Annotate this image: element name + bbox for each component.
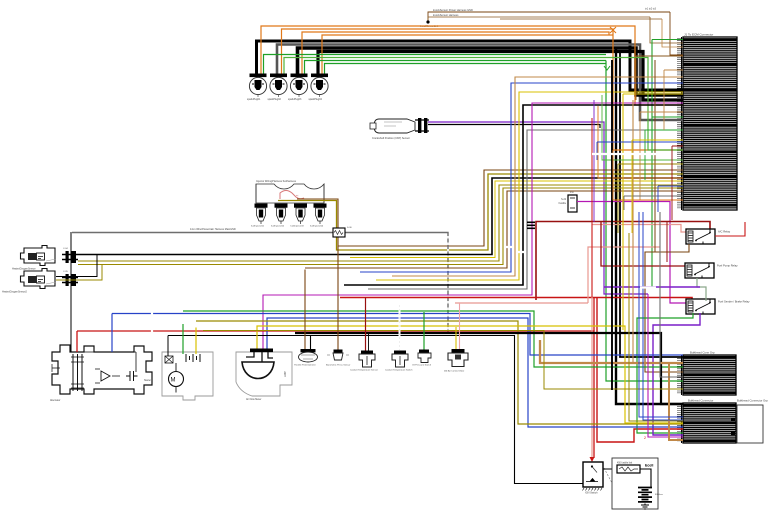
connector inline 3bar xyxy=(527,222,535,224)
svg-text:Starter: Starter xyxy=(144,379,151,382)
svg-text:M: M xyxy=(171,378,176,384)
spark plug 3 xyxy=(290,74,307,98)
wire brown relay1 xyxy=(645,244,689,372)
wire yellow stair xyxy=(350,181,683,258)
wire yellow IAC xyxy=(455,327,457,349)
wire darkred coolant sensor xyxy=(365,298,367,351)
wire darkred stub n xyxy=(672,146,683,220)
svg-text:sparkPlug04: sparkPlug04 xyxy=(309,98,323,101)
svg-text:Bulkhead Conn Grp: Bulkhead Conn Grp xyxy=(690,351,715,355)
oxygen sensor connector 1 xyxy=(62,251,78,263)
wire purple crank signal xyxy=(428,122,648,294)
wire salmon relay1 stub xyxy=(663,225,686,233)
wire yellow starter stub xyxy=(195,328,197,355)
wire pink IAC xyxy=(459,303,461,349)
svg-text:fuelInjector01: fuelInjector01 xyxy=(251,225,265,228)
svg-text:S-22: S-22 xyxy=(561,199,567,201)
wire gray stub h xyxy=(624,196,683,210)
svg-text:fuelInjector03: fuelInjector03 xyxy=(291,225,305,228)
wire olive long left xyxy=(203,331,683,390)
barometric pressure sensor xyxy=(327,350,349,361)
starter motor assembly xyxy=(162,352,213,400)
wire green coil 4 xyxy=(325,64,607,78)
wire red ign 2 xyxy=(593,298,595,332)
svg-text:Fuel Pump Relay: Fuel Pump Relay xyxy=(717,264,738,268)
injector 1 xyxy=(255,204,268,225)
node orange splice X xyxy=(610,27,616,33)
wire olive stub f xyxy=(618,164,683,233)
wire black starter band xyxy=(168,336,583,484)
wire red alternator feed xyxy=(76,331,78,352)
oxygen sensor connector 2 xyxy=(62,274,78,286)
wire brown top right xyxy=(670,12,683,55)
junction box resistor S-30 xyxy=(333,228,345,237)
svg-text:HeatedOxygenSensor2: HeatedOxygenSensor2 xyxy=(2,291,28,294)
wire blue bulkhead a xyxy=(639,212,683,417)
wire brown stub g xyxy=(636,56,683,100)
ignition switch xyxy=(583,462,604,491)
wire blue bulkhead b xyxy=(643,212,683,420)
wire orange trunk down xyxy=(613,35,683,150)
svg-text:Crankshaft Position (CKP) Sens: Crankshaft Position (CKP) Sensor xyxy=(372,137,410,140)
wire lightgreen stub b xyxy=(602,95,683,160)
svg-text:sparkPlug01: sparkPlug01 xyxy=(247,98,261,101)
wire yellow nest2 xyxy=(376,92,683,280)
wire purple stub l xyxy=(593,100,595,222)
svg-text:Coolant Temperature Sensor: Coolant Temperature Sensor xyxy=(350,369,378,372)
wire white crossing dashes on harness vertical xyxy=(447,236,449,332)
svg-text:Fusible: Fusible xyxy=(559,203,567,205)
svg-text:14-in Wire/Powertrain Harness: 14-in Wire/Powertrain Harness MainGND xyxy=(190,228,236,231)
ground battery xyxy=(641,504,649,510)
svg-text:sparkPlug02: sparkPlug02 xyxy=(268,98,282,101)
wire orange stub i xyxy=(613,150,683,200)
svg-text:fuelInjector04: fuelInjector04 xyxy=(310,225,324,228)
svg-text:Fuel Sender / Brake Relay: Fuel Sender / Brake Relay xyxy=(718,300,750,304)
svg-text:B1Mass: B1Mass xyxy=(655,494,664,496)
svg-text:fuelInjector02: fuelInjector02 xyxy=(271,225,285,228)
svg-text:A/C Relay: A/C Relay xyxy=(718,230,731,234)
wire olive O2 2 xyxy=(78,188,683,265)
wire brown throttle pot xyxy=(304,270,306,350)
relay K2 fuel pump xyxy=(685,263,714,278)
wire O2 sensor2 black stub xyxy=(56,255,97,277)
svg-text:AMP: AMP xyxy=(283,371,287,377)
wire green ECM top pin xyxy=(652,40,683,288)
injector wiring harness manifold xyxy=(256,184,324,203)
fuse S-22 fusible link xyxy=(568,195,577,212)
injector 2 xyxy=(275,204,288,225)
wire orange coil 4 xyxy=(322,35,613,77)
mechanical link dashed xyxy=(604,468,612,483)
wire tan stub m xyxy=(664,70,683,130)
wire purple relay3 out xyxy=(653,313,700,435)
node knock sensor ground junction xyxy=(426,20,429,23)
wire red battery trunk xyxy=(340,298,692,302)
wire tan top right 2 xyxy=(662,19,683,47)
coolant temperature switch xyxy=(392,351,408,368)
svg-text:tx1 tx2 tx3: tx1 tx2 tx3 xyxy=(645,8,657,11)
spark plug 4 xyxy=(311,74,328,98)
wire battery positive xyxy=(640,469,651,487)
wire brown trunk x655 xyxy=(654,60,656,252)
battery box xyxy=(612,458,658,509)
wire green starter stub xyxy=(182,324,184,354)
svg-text:S-30: S-30 xyxy=(347,227,352,229)
wire black trunk pair xyxy=(611,60,613,390)
injector 3 xyxy=(294,204,307,225)
wire black ground bus xyxy=(295,333,683,404)
wire red relay1 out xyxy=(715,222,745,236)
oil pressure switch xyxy=(418,350,431,363)
svg-text:Bulkhead Connector: Bulkhead Connector xyxy=(688,399,713,403)
wire yellow stub k xyxy=(632,140,683,233)
wire salmon sensor line xyxy=(455,302,588,304)
wire olive O2 1 xyxy=(78,185,683,261)
connector J1 ECM xyxy=(677,37,737,210)
fusible link F1 xyxy=(617,465,640,473)
wire gray ecm drop xyxy=(660,212,683,377)
svg-text:Idle Air Control Valve: Idle Air Control Valve xyxy=(444,370,465,373)
wire black nest xyxy=(344,105,683,285)
bulkhead connector group outline box xyxy=(737,405,763,443)
wire tan bulkhead vertical xyxy=(669,363,683,440)
wire yellow air cleaner xyxy=(257,326,683,423)
wire green relay3 out xyxy=(637,313,693,433)
wire harness trunk gray 2 xyxy=(345,233,448,333)
svg-text:Coolant Temperature Switch: Coolant Temperature Switch xyxy=(385,369,413,372)
wire tan bulkhead thick xyxy=(540,340,683,363)
wire black O2 1 xyxy=(78,178,683,255)
svg-text:Air Flow Meter: Air Flow Meter xyxy=(246,398,262,401)
wire tan top right xyxy=(650,17,683,43)
svg-text:HeatedOxygenSensor: HeatedOxygenSensor xyxy=(12,268,36,271)
wire ignition bus 2 gray xyxy=(277,45,683,121)
wire blue air cleaner xyxy=(267,318,683,427)
wire magenta nest air cleaner xyxy=(263,103,683,349)
wire O2 sensor2 olive stub xyxy=(56,265,102,281)
wire blue alternator stub xyxy=(111,314,113,353)
wire red ign drop xyxy=(597,298,683,443)
wire tan stub c xyxy=(640,112,683,200)
svg-text:knockSensor Power Harness GND: knockSensor Power Harness GND xyxy=(433,8,473,12)
bulkhead lower pin squares xyxy=(731,418,735,421)
svg-text:Barometric Press Sensor: Barometric Press Sensor xyxy=(326,364,351,367)
wire yellow trunk right xyxy=(623,94,683,330)
wire purple relay2 out xyxy=(604,286,700,288)
spark plug 1 xyxy=(249,74,266,98)
svg-text:2: 2 xyxy=(644,436,646,440)
connector bulkhead lower xyxy=(677,403,736,443)
wire black alternator xyxy=(70,350,72,352)
injector 4 xyxy=(314,204,327,225)
spark plug 2 xyxy=(270,74,287,98)
svg-text:Throttle Potentiometer: Throttle Potentiometer xyxy=(294,364,316,367)
wire green coil 3 xyxy=(305,61,607,78)
wire black switch to battery xyxy=(603,468,618,470)
wire olive trunk right xyxy=(629,233,683,421)
svg-text:Ecell: Ecell xyxy=(645,464,653,468)
wire graygreen relay2 to relay3 xyxy=(697,278,706,301)
wire orange stub a xyxy=(598,106,683,178)
wire black vertical trunk B xyxy=(620,52,683,357)
coolant temperature sensor xyxy=(359,351,375,368)
wire green stub j xyxy=(645,130,683,180)
wire green coil 2 xyxy=(284,58,683,151)
svg-text:Alternator: Alternator xyxy=(50,399,61,402)
injector internal resistor wire (pink) xyxy=(280,191,304,200)
relay K1 A/C xyxy=(686,229,715,244)
wire gray nest xyxy=(368,130,683,289)
relay K3 fuel sender xyxy=(686,299,715,314)
wire blue alternator xyxy=(112,314,683,356)
svg-text:Oil Pressure Switch: Oil Pressure Switch xyxy=(412,364,432,367)
wire green oil pressure xyxy=(423,312,425,350)
wire red band left xyxy=(77,331,594,458)
node red arrow into switch xyxy=(590,457,595,462)
idle air control valve xyxy=(448,349,468,367)
svg-text:C-35: C-35 xyxy=(63,271,69,273)
wire olive starter xyxy=(196,321,683,424)
wire ignition bus 1 xyxy=(257,41,684,90)
wire tan nest xyxy=(392,77,683,276)
wire tan knock sensor 2 xyxy=(428,17,662,22)
wire orange coil 3 xyxy=(302,32,609,77)
wire darkred main feed xyxy=(536,222,710,301)
svg-text:C-34: C-34 xyxy=(63,248,69,250)
wire black throttle pot xyxy=(310,336,312,350)
throttle potentiometer sensor xyxy=(299,349,318,362)
wire blue stub o xyxy=(658,186,683,212)
battery B1 xyxy=(638,488,652,502)
svg-text:Bulkhead Connector Grp: Bulkhead Connector Grp xyxy=(737,399,768,403)
crankshaft position sensor xyxy=(370,118,429,133)
wire brown throttle stair xyxy=(305,191,683,268)
wire darkred trunk 2 xyxy=(666,222,668,263)
wire magenta trunk xyxy=(648,294,683,437)
svg-text:sparkPlug03: sparkPlug03 xyxy=(288,98,302,101)
wire black starter stub xyxy=(167,336,169,357)
node green splice arrow xyxy=(604,66,610,70)
wire green trunk down xyxy=(606,61,683,382)
wire purple fuse feed xyxy=(577,202,686,304)
wire harness trunk gray xyxy=(72,232,333,234)
svg-text:IGN Switch: IGN Switch xyxy=(585,492,598,495)
wire salmon relay feed xyxy=(592,225,663,459)
wire crossing breaks xyxy=(152,154,662,332)
svg-text:knockSensor Harness: knockSensor Harness xyxy=(433,13,459,17)
wire black left trunk xyxy=(70,232,72,350)
wire black coolant sensor xyxy=(368,333,370,351)
wire orange coil 1 xyxy=(261,26,683,105)
wire tan trunk right xyxy=(632,100,634,363)
wire green starter band xyxy=(183,311,683,367)
svg-text:J1 To ECM Connector: J1 To ECM Connector xyxy=(684,33,713,37)
wire ignition bus 3 xyxy=(298,48,684,95)
alternator xyxy=(52,345,152,394)
connector bulkhead upper xyxy=(677,355,736,395)
wire brown injector feed xyxy=(297,170,683,246)
wire white break coolant switch xyxy=(399,305,401,350)
wire brown knock sensor xyxy=(428,12,670,22)
oxygen sensor 2 xyxy=(21,269,57,289)
wire ignition bus 4 xyxy=(318,52,683,101)
wire green stub d xyxy=(652,116,683,118)
wire black crank return xyxy=(428,125,600,129)
wire green coil 1 xyxy=(264,55,607,78)
wire blue nest xyxy=(360,83,683,272)
svg-text:Injector Wiring/Harness Subhar: Injector Wiring/Harness Subharness xyxy=(256,180,297,183)
wire red trunk x592 xyxy=(591,118,593,297)
wire salmon relay feed 2 xyxy=(588,247,660,303)
wire orange coil 2 xyxy=(282,29,614,77)
wire brown baro sensor xyxy=(337,246,339,350)
wire blue stub e xyxy=(597,142,683,160)
oxygen sensor 1 xyxy=(21,246,57,266)
svg-text:450 fusible link: 450 fusible link xyxy=(617,463,633,465)
wire olive injector feed xyxy=(278,174,683,250)
wire black vertical trunk A xyxy=(616,48,683,404)
air flow meter xyxy=(236,349,292,397)
wire darkred relay2 feed xyxy=(601,222,685,267)
